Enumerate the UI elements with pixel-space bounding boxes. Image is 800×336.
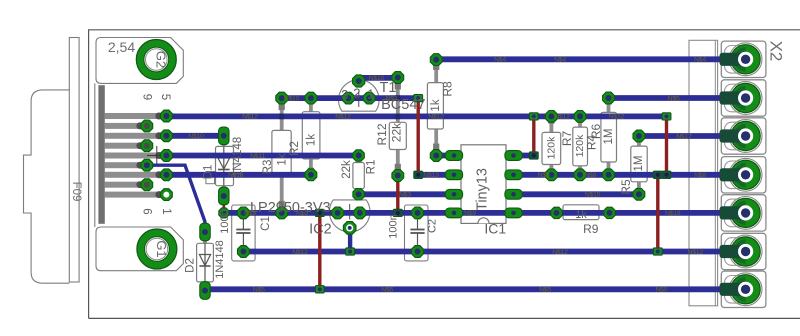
terminal X2 pin 7 cell [721, 271, 766, 307]
net label N$5 [381, 287, 393, 294]
terminal block X2 body [689, 40, 718, 306]
resistor R5 body [631, 146, 647, 182]
connector F09 pin 2 pad [161, 169, 173, 181]
wire N$12 bottom [243, 249, 745, 255]
junction N$9/red b [393, 209, 402, 216]
terminal X2 pin 4 cell [721, 157, 766, 193]
diode D2 cathode pad [200, 282, 210, 300]
svg-text:R6: R6 [589, 124, 603, 140]
net label N$8 [584, 172, 596, 179]
svg-text:1M: 1M [603, 129, 615, 145]
wire N$11 R8-IC1 [436, 153, 454, 159]
label R7 [560, 131, 574, 147]
svg-text:D2: D2 [184, 258, 196, 273]
terminal X2 pin 4 pad [720, 160, 761, 189]
svg-text:R7: R7 [560, 131, 574, 147]
diode D2 body [197, 243, 214, 282]
diode D1 polarity square [206, 172, 215, 184]
svg-text:T1: T1 [380, 80, 397, 96]
svg-text:N$5: N$5 [253, 287, 265, 294]
svg-text:R5: R5 [619, 179, 633, 195]
net label N$9 [244, 210, 256, 217]
connector F09 pin 1 pad [161, 189, 173, 201]
resistor R8 pads [430, 54, 442, 162]
label 22k [389, 122, 403, 142]
diode D1 cathode pad [219, 187, 229, 205]
resistor R3 body [272, 130, 291, 176]
net label N$12 [242, 114, 258, 121]
label R12 [375, 123, 389, 145]
resistor R4 body [601, 112, 617, 162]
resistor R12 leads [396, 78, 400, 176]
label 1M [603, 129, 615, 145]
junction N$9/red a [315, 209, 324, 216]
red wire R12 to N$9 [396, 176, 399, 213]
resistor R2 body [302, 112, 320, 159]
terminal X2 pin 6 cell [721, 233, 766, 269]
svg-text:1k: 1k [277, 153, 289, 165]
label R6 [589, 124, 603, 140]
resistor R6 leads [578, 116, 582, 174]
wire N$5 right [609, 95, 746, 101]
label 1k [430, 99, 442, 111]
mounting hole G1 box [96, 227, 183, 271]
resistor R4 pads [603, 92, 615, 181]
ic IC2 pad 3 [354, 207, 366, 219]
svg-text:1k: 1k [575, 209, 587, 221]
resistor R8 body [427, 83, 443, 129]
label G2 [153, 51, 168, 68]
label C2 [427, 219, 439, 233]
lead shadow R12/N$12 crossing [395, 114, 400, 120]
svg-text:100n: 100n [219, 209, 231, 233]
pin number 5 [159, 94, 171, 100]
svg-text:Tiny13: Tiny13 [475, 168, 491, 211]
resistor R6 pads [574, 111, 586, 181]
label BC547 [381, 97, 425, 113]
svg-text:R2: R2 [289, 141, 301, 156]
net label N$12 [335, 114, 351, 121]
wire N$9 [224, 210, 746, 216]
net label N$12 [292, 249, 308, 256]
wire IC2 pin2 stub [348, 228, 352, 252]
net label N$8 [694, 172, 706, 179]
connector F09 pin 3 pad [161, 150, 173, 162]
pin number 9 [141, 94, 153, 100]
label 1 [367, 87, 374, 102]
net label N$11 [250, 153, 265, 160]
svg-text:G1: G1 [154, 240, 169, 257]
net label N$10 [188, 133, 204, 140]
label 100n [219, 209, 231, 233]
label IC1 [484, 221, 506, 237]
svg-text:N$9: N$9 [464, 210, 476, 217]
svg-text:N$9: N$9 [296, 210, 308, 217]
svg-text:120k: 120k [546, 136, 558, 160]
svg-text:N$17: N$17 [676, 133, 692, 140]
terminal X2 pin 2 pad [720, 83, 761, 112]
transistor T1 pad 1 [363, 92, 375, 104]
net label N$3 [399, 192, 411, 199]
label R1 [365, 160, 377, 175]
svg-text:IC1: IC1 [484, 221, 506, 237]
resistor R3 leads [280, 98, 284, 213]
terminal X2 pin 2 cell [721, 80, 766, 116]
label 1N4148 [214, 240, 226, 279]
svg-text:N$12: N$12 [292, 249, 308, 256]
ic IC1 body [461, 145, 506, 224]
svg-text:R3: R3 [262, 160, 274, 175]
connector F09 pins [105, 113, 163, 199]
resistor R6 body [573, 127, 588, 166]
resistor R7 pads [546, 111, 558, 181]
wire N$3 [359, 191, 454, 197]
diode D1 leads [222, 136, 226, 196]
svg-text:1k: 1k [305, 134, 317, 146]
svg-text:2,54: 2,54 [108, 39, 135, 55]
resistor R5 leads [637, 136, 641, 194]
svg-text:N$8: N$8 [538, 172, 550, 179]
svg-text:G2: G2 [153, 51, 168, 68]
wire N$16 [514, 153, 534, 159]
net label N$13 [423, 172, 439, 179]
board outline [89, 30, 800, 319]
mounting hole G2 box [96, 38, 183, 84]
net label N$13 [228, 172, 244, 179]
svg-text:1M: 1M [633, 156, 645, 172]
resistor R12 pads [392, 72, 404, 182]
svg-text:N$9: N$9 [244, 210, 256, 217]
label T1 [380, 80, 397, 96]
svg-text:F09: F09 [70, 182, 82, 202]
terminal X2 pin 5 pad [720, 198, 761, 227]
dimension label 2,54 [108, 39, 135, 55]
transistor T1 outline [339, 80, 380, 112]
svg-text:N$12: N$12 [335, 114, 351, 121]
svg-text:N$0: N$0 [655, 287, 667, 294]
label G1 [154, 240, 169, 257]
red wire N$2 to N$13 [417, 98, 420, 175]
label IC2 [309, 221, 332, 237]
resistor R8 leads [434, 60, 438, 156]
resistor R12 body [389, 122, 406, 149]
wire N$13 right [418, 172, 454, 178]
svg-text:N$13: N$13 [228, 172, 244, 179]
net label N$10 [284, 95, 300, 102]
diode D2 anode pad [200, 223, 210, 241]
svg-text:N$8: N$8 [694, 172, 706, 179]
red wire D1 to N$9 [223, 199, 226, 213]
svg-text:D1: D1 [203, 165, 215, 180]
junction N$5/red [315, 286, 324, 293]
svg-text:N$3: N$3 [399, 192, 411, 199]
svg-text:N$10: N$10 [369, 75, 385, 82]
label C1 [260, 216, 272, 231]
connector F09 origin cross [147, 146, 167, 165]
wire N$4 [436, 56, 745, 62]
diode D1 anode pad [219, 127, 229, 145]
wire N$17 [639, 133, 746, 139]
label X2 [767, 41, 786, 62]
capacitor C2 pads [412, 207, 424, 257]
svg-text:1k: 1k [430, 99, 442, 111]
net label N$15 [585, 192, 601, 199]
svg-text:N$8: N$8 [584, 172, 596, 179]
wire N$12 main [166, 114, 666, 120]
diode D1 body [216, 146, 234, 185]
terminal X2 pin 1 pad [720, 45, 761, 74]
via D1/N$9 [219, 208, 229, 218]
mounting hole G2 pad [136, 40, 176, 80]
svg-text:N$4: N$4 [494, 57, 506, 64]
net label N$4 [554, 57, 566, 64]
svg-text:R1: R1 [365, 160, 377, 175]
svg-text:C2: C2 [427, 219, 439, 233]
capacitor C2 body [405, 205, 429, 261]
svg-text:N$18: N$18 [665, 210, 681, 217]
net label N$12 [428, 114, 444, 121]
label R3 [262, 160, 274, 175]
connector F09 pin 7 pad [141, 159, 153, 171]
resistor R1 leads [357, 156, 361, 195]
ic IC2 pad 2 [343, 222, 356, 235]
red wire N$9 to N$5 [318, 213, 321, 289]
label 1M [633, 156, 645, 172]
junction N$12b/red [653, 248, 662, 255]
resistor R9 pads [551, 207, 615, 218]
terminal X2 pin 5 cell [721, 195, 766, 231]
svg-text:N$12: N$12 [428, 114, 444, 121]
svg-text:N$10: N$10 [284, 95, 300, 102]
wire pin7 to D2 diagonal [147, 165, 205, 232]
net label N$12 [609, 114, 625, 121]
junction N$12/red a [529, 113, 538, 120]
junction N$13/red [414, 171, 423, 178]
svg-text:1: 1 [160, 208, 172, 214]
terminal X2 pin 1 cell [721, 41, 766, 77]
resistor R2 leads [309, 98, 313, 175]
wire N$10 to D1 [166, 133, 223, 139]
connector F09 pin 6 pad [141, 179, 153, 191]
svg-text:LP2950-3V3: LP2950-3V3 [250, 200, 331, 216]
svg-text:R9: R9 [583, 222, 599, 236]
svg-text:N$12: N$12 [242, 114, 258, 121]
connector F09 pin 8 pad [141, 140, 153, 152]
label 1N4148 [232, 137, 244, 177]
svg-text:N$12: N$12 [688, 249, 704, 256]
label F09 [70, 182, 82, 202]
junction N$16/red [529, 152, 538, 159]
label 120k [574, 134, 586, 158]
svg-text:3: 3 [341, 87, 348, 102]
wire N$11 [166, 153, 358, 159]
svg-text:5: 5 [159, 94, 171, 100]
label R4 [585, 135, 599, 151]
ic IC1 pads left [445, 151, 462, 218]
connector F09 pin 4 pad [161, 130, 173, 142]
net label N$8 [538, 172, 550, 179]
svg-text:N$12: N$12 [554, 114, 570, 121]
label 100n [388, 214, 400, 238]
resistor R4 leads [607, 98, 611, 175]
svg-text:100n: 100n [388, 214, 400, 238]
label R9 [583, 222, 599, 236]
net label N$18 [665, 210, 681, 217]
red wire N$12 to N$8 [665, 116, 668, 174]
svg-text:X2: X2 [767, 41, 786, 62]
svg-text:9: 9 [141, 94, 153, 100]
svg-text:1N4148: 1N4148 [232, 137, 244, 177]
svg-text:N$4: N$4 [694, 57, 706, 64]
junction N$8/red b [653, 171, 662, 178]
resistor R2 pads [305, 92, 317, 181]
svg-text:22k: 22k [341, 160, 353, 179]
resistor R5 pads [633, 130, 645, 200]
lead shadow R12/N$2 crossing [395, 95, 400, 101]
capacitor C1 body [232, 205, 255, 261]
svg-text:N$5: N$5 [668, 95, 680, 102]
pin number 1 [160, 208, 172, 214]
net label N$17 [676, 133, 692, 140]
svg-text:N$15: N$15 [585, 192, 601, 199]
svg-text:N$5: N$5 [381, 287, 393, 294]
wire N$15 [514, 191, 639, 197]
svg-text:1N4148: 1N4148 [214, 240, 226, 279]
terminal X2 pin 6 pad [720, 237, 761, 266]
net label N$4 [494, 57, 506, 64]
svg-text:IC2: IC2 [309, 221, 332, 237]
ic IC2 pad 1 [332, 207, 344, 219]
label D2 [184, 258, 196, 273]
resistor R1 body [353, 163, 364, 189]
junction N$2/red [414, 95, 423, 102]
label 120k [546, 136, 558, 160]
svg-text:R8: R8 [441, 81, 455, 97]
svg-text:N$2: N$2 [385, 95, 397, 102]
resistor R3 pads [276, 92, 288, 219]
label R2 [289, 141, 301, 156]
terminal X2 pin 3 cell [721, 118, 766, 154]
svg-text:N$10: N$10 [188, 133, 204, 140]
junction N$12/red b [662, 113, 671, 120]
transistor T1 pad 3 [343, 92, 355, 104]
net label N$12 [552, 249, 568, 256]
net label N$12 [554, 114, 570, 121]
wire N$2 left [282, 95, 419, 101]
connector F09 pin 9 pad [141, 120, 153, 132]
mounting hole G1 pad [137, 229, 177, 269]
net label N$2 [385, 95, 397, 102]
svg-text:N$11: N$11 [250, 153, 265, 160]
wire N$10 stub T1-R12 [359, 75, 398, 81]
svg-text:N$4: N$4 [554, 57, 566, 64]
svg-text:6: 6 [141, 208, 153, 214]
label R8 [441, 81, 455, 97]
label Tiny13 [475, 168, 491, 211]
terminal X2 pin 7 pad [720, 275, 761, 304]
resistor R7 body [542, 132, 561, 164]
connector F09 face bar [98, 85, 104, 224]
svg-text:N$5: N$5 [539, 287, 551, 294]
svg-text:N$13: N$13 [423, 172, 439, 179]
red wire N$12 to N$16 [532, 116, 535, 155]
net label N$0 [655, 287, 667, 294]
capacitor C1 pads [238, 207, 250, 257]
net label N$5 [668, 95, 680, 102]
label R5 [619, 179, 633, 195]
net label N$9 [296, 210, 308, 217]
svg-text:R12: R12 [375, 123, 389, 145]
wire N$13 left [166, 172, 311, 178]
label LP2950-3V3 [250, 200, 331, 216]
resistor R1 pads [353, 150, 364, 200]
ic IC2 outline [329, 200, 370, 232]
lead shadow R3/N$12 crossing [279, 114, 284, 120]
svg-text:N$12: N$12 [609, 114, 625, 121]
label 2 [353, 85, 360, 100]
diode D2 leads [203, 232, 207, 291]
net label N$12 [688, 249, 704, 256]
net label N$4 [694, 57, 706, 64]
transistor T1 pad 2 [353, 75, 365, 87]
label 3 [341, 87, 348, 102]
svg-text:2: 2 [353, 85, 360, 100]
net label N$5 [539, 287, 551, 294]
svg-text:22k: 22k [389, 122, 403, 142]
resistor R9 leads [557, 211, 610, 215]
svg-text:C1: C1 [260, 216, 272, 231]
net label N$9 [464, 210, 476, 217]
red wire N$8 to N$12b [656, 175, 659, 252]
connector F09 shell [24, 38, 95, 284]
label D1 [203, 165, 215, 180]
svg-text:1: 1 [367, 87, 374, 102]
junction N$12b/IC2 stub [346, 248, 355, 255]
net label N$10 [369, 75, 385, 82]
junction N$8/red a [662, 171, 671, 178]
resistor R7 leads [550, 116, 554, 174]
wire N$8 [514, 172, 746, 178]
net label N$5 [253, 287, 265, 294]
pin number 6 [141, 208, 153, 214]
wire N$5 bottom [205, 286, 746, 292]
label 1k [575, 209, 587, 221]
terminal X2 pin 3 pad [720, 121, 761, 150]
connector F09 pin 5 pad [161, 110, 173, 122]
label 22k [341, 160, 353, 179]
label 1k [305, 134, 317, 146]
label 1k [277, 153, 289, 165]
ic IC1 pads right [505, 151, 522, 218]
svg-text:N$12: N$12 [552, 249, 568, 256]
resistor R9 body [563, 205, 599, 220]
